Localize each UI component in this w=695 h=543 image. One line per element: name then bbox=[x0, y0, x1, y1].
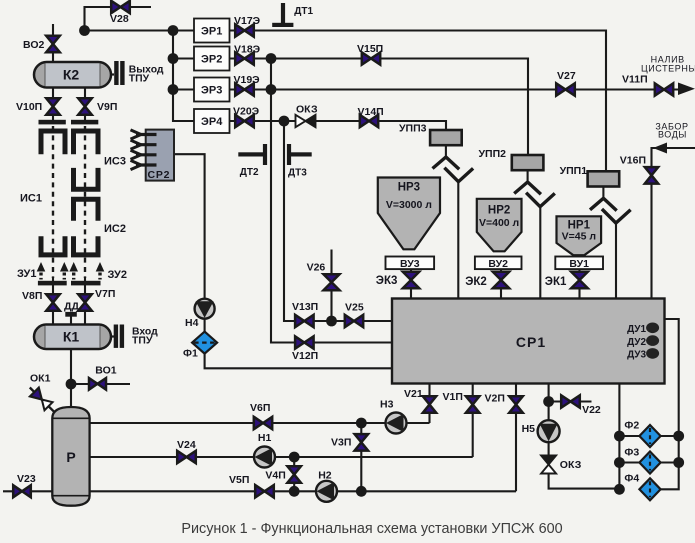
controller SR1 bbox=[392, 299, 665, 384]
svg-text:V18Э: V18Э bbox=[234, 44, 261, 56]
wire V22 branch bbox=[549, 400, 592, 402]
valve V18E bbox=[235, 52, 254, 64]
wire V3P branch bbox=[360, 423, 362, 491]
wire row1 ER1 to UPP1 drop bbox=[230, 31, 607, 172]
wire row2 ER2 to UPP2 drop bbox=[230, 59, 529, 156]
hopper НР1 bbox=[557, 216, 602, 255]
svg-text:УПП3: УПП3 bbox=[399, 123, 427, 135]
svg-text:Н3: Н3 bbox=[380, 399, 394, 411]
svg-text:Ф3: Ф3 bbox=[624, 447, 639, 459]
svg-text:V14П: V14П bbox=[358, 106, 384, 118]
wire line C P tank to V2P corner bbox=[90, 490, 516, 492]
indicator DU3 bbox=[646, 348, 659, 359]
wire line A P tank to V21 corner bbox=[90, 422, 430, 424]
sensor DT1 bbox=[272, 3, 293, 27]
valve EK1 bbox=[571, 272, 588, 288]
pump H2 bbox=[316, 481, 337, 502]
valve V3P bbox=[355, 434, 369, 451]
filter F4 bbox=[639, 478, 660, 500]
wire УПП2 stem bbox=[527, 170, 529, 182]
valve V23 bbox=[13, 485, 31, 497]
svg-text:V16П: V16П bbox=[620, 155, 646, 167]
TPU outlet connector bbox=[111, 61, 125, 85]
svg-text:Рисунок 1 - Функциональная схе: Рисунок 1 - Функциональная схема установ… bbox=[181, 521, 562, 537]
wire tube right lower column bbox=[84, 277, 86, 325]
svg-text:ДТ3: ДТ3 bbox=[288, 168, 307, 179]
wire УПП1 stem bbox=[602, 187, 604, 199]
block ЭР3 bbox=[194, 78, 230, 102]
valve V28 bbox=[111, 1, 130, 13]
SR2 input arrow 4 bbox=[131, 160, 157, 169]
tube right dashed axis bbox=[84, 126, 86, 278]
svg-text:ВУ1: ВУ1 bbox=[569, 258, 589, 270]
valve V20E bbox=[235, 115, 254, 127]
svg-text:V26: V26 bbox=[307, 262, 326, 274]
svg-text:V10П: V10П bbox=[16, 101, 42, 113]
vessel K1 bbox=[34, 325, 111, 350]
node line C V3P junction bbox=[356, 486, 367, 497]
wire vertical Vb row4 to V13P bbox=[284, 121, 392, 321]
node line A V3P junction bbox=[356, 418, 367, 429]
svg-text:V6П: V6П bbox=[250, 402, 270, 414]
wire UPP2 spout to SR1 bbox=[539, 207, 541, 305]
wire UPP3 spout to SR1 bbox=[457, 182, 459, 305]
svg-text:ЗУ1: ЗУ1 bbox=[17, 268, 36, 280]
valve V22 bbox=[561, 395, 580, 407]
valve V12P bbox=[295, 336, 314, 348]
svg-text:ЭК1: ЭК1 bbox=[545, 276, 567, 288]
SR2 input arrow 1 bbox=[131, 130, 157, 139]
svg-text:УПП2: УПП2 bbox=[479, 148, 507, 160]
valve EK2 bbox=[493, 272, 509, 288]
tube IS1 top bracket bbox=[41, 131, 65, 154]
wire vertical Va rows to V12P bbox=[271, 59, 392, 343]
svg-text:V17Э: V17Э bbox=[234, 15, 261, 27]
svg-text:Н1: Н1 bbox=[258, 432, 272, 444]
svg-text:ДТ2: ДТ2 bbox=[240, 167, 259, 178]
svg-text:V8П: V8П bbox=[22, 290, 42, 302]
svg-text:V9П: V9П bbox=[97, 101, 117, 113]
svg-text:НР2: НР2 bbox=[488, 205, 510, 217]
wire EK2 line bbox=[500, 270, 502, 306]
svg-text:ДД: ДД bbox=[64, 301, 79, 313]
block ВУ3 bbox=[386, 257, 435, 271]
svg-text:ИС2: ИС2 bbox=[104, 223, 126, 235]
valve V8P bbox=[46, 294, 60, 311]
svg-text:ИС3: ИС3 bbox=[104, 156, 126, 168]
block ВУ2 bbox=[475, 257, 522, 271]
node header row3 bbox=[168, 84, 179, 95]
node H5 V22 junction bbox=[543, 396, 554, 407]
valve V6P bbox=[254, 417, 272, 429]
wire V1P drop bbox=[472, 384, 474, 458]
check valve OK1 bbox=[25, 383, 59, 417]
wire F3 left stub bbox=[619, 461, 639, 463]
svg-text:ЭК2: ЭК2 bbox=[465, 276, 487, 288]
svg-text:Ф2: Ф2 bbox=[624, 420, 639, 432]
tube IS3 bottom bracket bbox=[74, 168, 99, 189]
sensor DD bbox=[65, 312, 77, 317]
svg-text:ЭР1: ЭР1 bbox=[201, 26, 222, 38]
wire row1 from node A to ER1 bbox=[85, 29, 195, 31]
valve V4P bbox=[287, 466, 301, 483]
node row2 Va junction bbox=[266, 53, 277, 64]
svg-text:V22: V22 bbox=[582, 404, 601, 416]
valve V7P bbox=[78, 294, 92, 311]
block ВУ1 bbox=[555, 257, 603, 271]
block ЭР4 bbox=[194, 109, 230, 133]
svg-text:V4П: V4П bbox=[265, 470, 285, 482]
tube top cap left bbox=[39, 120, 66, 125]
wire row4 ER4 to UPP3 drop bbox=[230, 121, 447, 130]
probe arrow ZU1 left bbox=[37, 262, 46, 280]
svg-text:V7П: V7П bbox=[95, 288, 115, 300]
atomizer УПП3 funnel bbox=[444, 168, 473, 182]
wire EK3 line bbox=[410, 269, 412, 305]
valve V2P bbox=[509, 396, 523, 413]
valve BO2 bbox=[46, 36, 60, 52]
node K2 riser junction bbox=[79, 25, 90, 36]
svg-text:ВО1: ВО1 bbox=[95, 365, 116, 377]
tube bottom bar left bbox=[38, 281, 67, 286]
filter F3 bbox=[639, 452, 660, 474]
svg-text:V19Э: V19Э bbox=[234, 74, 261, 86]
svg-text:К1: К1 bbox=[63, 329, 80, 345]
valve V17E bbox=[235, 24, 254, 36]
svg-text:Н5: Н5 bbox=[522, 423, 536, 435]
svg-text:ЭР4: ЭР4 bbox=[201, 116, 223, 128]
svg-text:ВУ3: ВУ3 bbox=[400, 258, 420, 270]
wire tube left lower column bbox=[52, 277, 54, 325]
atomizer УПП3 body bbox=[430, 130, 462, 145]
node F2 left junction bbox=[614, 431, 625, 442]
svg-text:V12П: V12П bbox=[292, 350, 318, 362]
wire V23 line bbox=[3, 490, 52, 492]
arrow zabor vody bbox=[653, 143, 667, 154]
svg-text:ЭР2: ЭР2 bbox=[201, 54, 222, 66]
valve EK3 bbox=[403, 272, 419, 288]
wire K2 right bottom to tube bbox=[84, 87, 86, 120]
svg-text:V1П: V1П bbox=[443, 391, 463, 403]
wire K2 left bottom to tube bbox=[52, 87, 54, 120]
wire line B P tank to V1P corner bbox=[90, 456, 473, 458]
svg-text:НР3: НР3 bbox=[398, 182, 420, 194]
wire K1 bottom to P tank bbox=[70, 349, 72, 408]
svg-text:V13П: V13П bbox=[292, 301, 318, 313]
svg-text:УПП1: УПП1 bbox=[560, 165, 588, 177]
svg-text:V15П: V15П bbox=[357, 43, 383, 55]
wire filter left line bbox=[618, 384, 620, 490]
svg-text:V25: V25 bbox=[345, 302, 364, 314]
indicator DU1 bbox=[646, 323, 659, 334]
atomizer УПП2 funnel bbox=[526, 193, 555, 207]
indicator DU2 bbox=[646, 335, 659, 346]
wire row3 ER3 to naliv arrow bbox=[230, 88, 682, 90]
probe arrow ZU2 right bbox=[96, 262, 105, 280]
wire zabor vody line bbox=[652, 148, 695, 305]
tube IS1 bottom bracket bbox=[41, 236, 65, 255]
tube top cap right bbox=[71, 120, 98, 125]
arrow naliv cisterny bbox=[678, 83, 695, 96]
valve V5P bbox=[255, 485, 274, 497]
valve V1P bbox=[466, 396, 480, 413]
SR2 input arrow 2 bbox=[131, 140, 157, 149]
wire BO1 line bbox=[71, 383, 130, 385]
svg-text:V5П: V5П bbox=[229, 474, 249, 486]
valve V21 bbox=[423, 396, 436, 413]
node F2 right junction bbox=[673, 431, 684, 442]
svg-text:ЭР3: ЭР3 bbox=[201, 85, 222, 97]
pump H5 bbox=[538, 420, 560, 442]
wire SR2 to H4 to F1 to SR1 bbox=[174, 154, 392, 368]
svg-text:V=400 л: V=400 л bbox=[479, 217, 519, 229]
svg-text:ОК1: ОК1 bbox=[30, 373, 51, 385]
svg-text:ДУ1: ДУ1 bbox=[627, 324, 646, 335]
svg-text:СР2: СР2 bbox=[148, 169, 171, 181]
svg-text:СР1: СР1 bbox=[516, 334, 546, 350]
atomizer УПП2 body bbox=[512, 155, 544, 170]
wire row2 header to ER2 bbox=[173, 57, 194, 59]
node F3 left junction bbox=[614, 457, 625, 468]
wire V28 vent line bbox=[85, 7, 152, 31]
tube left dashed axis bbox=[52, 126, 54, 278]
svg-text:ТПУ: ТПУ bbox=[129, 74, 150, 85]
atomizer УПП1 spray bbox=[590, 198, 617, 210]
wire F2 right stub bbox=[660, 435, 679, 437]
svg-text:ВУ2: ВУ2 bbox=[488, 258, 508, 270]
svg-text:Ф4: Ф4 bbox=[624, 473, 639, 485]
node header row2 bbox=[168, 53, 179, 64]
pump H1 bbox=[254, 447, 275, 468]
wire EK1 line bbox=[578, 270, 580, 306]
check valve OKZ top bbox=[296, 115, 316, 127]
valve V24 bbox=[177, 451, 196, 463]
valve V9P bbox=[78, 98, 92, 115]
svg-text:V11П: V11П bbox=[622, 74, 648, 86]
svg-text:ВОДЫ: ВОДЫ bbox=[658, 130, 687, 140]
valve V16P bbox=[645, 167, 658, 184]
wire V4P branch bbox=[293, 457, 295, 491]
block ЭР2 bbox=[194, 47, 230, 71]
wire DD stem bbox=[70, 316, 72, 325]
sensor DT3 bbox=[287, 144, 312, 165]
controller SR2 bbox=[146, 130, 174, 181]
wire V26 stub bbox=[330, 250, 332, 322]
node row3 Va junction bbox=[266, 84, 277, 95]
svg-text:ЦИСТЕРНЫ: ЦИСТЕРНЫ bbox=[641, 63, 695, 73]
probe arrow ZU2 left bbox=[69, 262, 78, 280]
svg-text:V24: V24 bbox=[177, 439, 196, 451]
svg-text:Р: Р bbox=[66, 449, 75, 465]
valve V14P bbox=[360, 115, 378, 127]
svg-text:К2: К2 bbox=[63, 67, 80, 83]
svg-text:Н4: Н4 bbox=[185, 317, 199, 329]
wire BO2 line bbox=[52, 24, 54, 62]
valve BO1 bbox=[89, 378, 106, 390]
wire V2P drop bbox=[515, 384, 517, 492]
wire V21 drop bbox=[428, 384, 430, 424]
wire row3 header to ER3 bbox=[173, 88, 194, 90]
filter F2 bbox=[639, 425, 660, 447]
svg-text:V=45 л: V=45 л bbox=[562, 231, 596, 243]
probe arrow ZU1 right bbox=[60, 262, 69, 280]
sensor DT2 bbox=[238, 144, 267, 165]
svg-text:ИС1: ИС1 bbox=[20, 193, 42, 205]
valve V19E bbox=[235, 83, 254, 95]
node V26 junction bbox=[326, 316, 337, 327]
node F3 right junction bbox=[673, 457, 684, 468]
svg-text:ВО2: ВО2 bbox=[23, 39, 44, 51]
tube IS2 bottom bracket bbox=[74, 236, 99, 255]
svg-text:V21: V21 bbox=[404, 388, 423, 400]
node line B V4P junction bbox=[289, 452, 300, 463]
atomizer УПП1 funnel bbox=[602, 209, 631, 223]
svg-text:V28: V28 bbox=[110, 13, 129, 25]
svg-text:ДУ2: ДУ2 bbox=[627, 337, 646, 348]
node F4 left junction bbox=[614, 484, 625, 495]
vessel P bbox=[52, 407, 89, 506]
wire F2 left stub bbox=[619, 435, 639, 437]
valve V11P bbox=[655, 83, 673, 95]
svg-text:V2П: V2П bbox=[485, 393, 505, 405]
TPU inlet connector bbox=[111, 325, 124, 348]
svg-text:V23: V23 bbox=[17, 473, 36, 485]
block ЭР1 bbox=[194, 19, 230, 43]
wire filter right line bbox=[660, 319, 679, 489]
svg-text:ОКЗ: ОКЗ bbox=[296, 104, 318, 116]
valve V27 bbox=[556, 83, 575, 95]
valve V15P bbox=[362, 52, 380, 64]
svg-text:ОКЗ: ОКЗ bbox=[560, 459, 582, 471]
wire F3 right stub bbox=[660, 461, 679, 463]
svg-text:ДТ1: ДТ1 bbox=[294, 6, 313, 17]
svg-text:V27: V27 bbox=[557, 70, 576, 82]
valve V13P bbox=[295, 315, 314, 327]
valve V25 bbox=[345, 315, 363, 327]
atomizer УПП3 spray bbox=[433, 157, 460, 169]
wire H5 line SR1 to OK3 to filters bbox=[549, 384, 620, 489]
valve V26 bbox=[324, 274, 340, 290]
atomizer УПП1 body bbox=[588, 171, 620, 186]
svg-text:V20Э: V20Э bbox=[233, 106, 260, 118]
pump H4 bbox=[195, 299, 215, 319]
svg-text:Н2: Н2 bbox=[318, 469, 332, 481]
hopper НР3 bbox=[378, 178, 440, 250]
hopper НР2 bbox=[477, 199, 522, 252]
pump H3 bbox=[386, 413, 407, 434]
valve V10P bbox=[46, 98, 60, 115]
tube IS3 top bracket bbox=[74, 131, 99, 154]
svg-text:Ф1: Ф1 bbox=[183, 348, 198, 360]
wire УПП3 stem bbox=[445, 145, 447, 157]
svg-text:ЗУ2: ЗУ2 bbox=[108, 269, 127, 281]
svg-text:ЭК3: ЭК3 bbox=[376, 275, 398, 287]
vessel K2 bbox=[34, 62, 111, 88]
wire left header vertical x=173 bbox=[173, 31, 194, 122]
tube IS2 top bracket bbox=[74, 199, 99, 221]
atomizer УПП2 spray bbox=[514, 182, 541, 194]
node line C V4P junction bbox=[289, 486, 300, 497]
filter F1 bbox=[192, 332, 217, 354]
svg-text:V3П: V3П bbox=[331, 437, 351, 449]
svg-text:ДУ3: ДУ3 bbox=[627, 350, 646, 361]
node row4 Vb junction bbox=[279, 116, 290, 127]
svg-text:V=3000 л: V=3000 л bbox=[386, 199, 432, 211]
SR2 input arrow 3 bbox=[131, 150, 157, 159]
node K1 drain junction bbox=[66, 379, 77, 390]
check valve OKZ bottom bbox=[541, 456, 556, 474]
wire UPP1 spout to SR1 bbox=[615, 223, 617, 305]
tube bottom bar right bbox=[71, 281, 101, 286]
svg-text:ТПУ: ТПУ bbox=[132, 336, 153, 347]
node header row1 bbox=[168, 25, 179, 36]
